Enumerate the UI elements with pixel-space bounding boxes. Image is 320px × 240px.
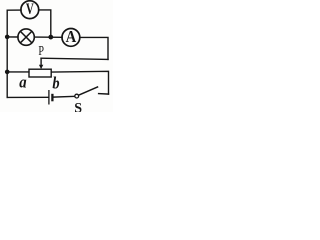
svg-text:P: P [38, 44, 44, 59]
wire ammeter right, down right side [80, 37, 108, 59]
wire bottom left to battery [7, 96, 48, 98]
svg-text:V: V [26, 1, 34, 18]
battery long plate [48, 90, 50, 105]
switch pivot circle [75, 94, 79, 98]
wire row3 left to box [7, 71, 29, 73]
node junction dot left row3 [5, 70, 10, 75]
wire switch stub to bottom right corner [99, 93, 109, 96]
node junction dot top branch [48, 35, 53, 40]
wire battery to switch [53, 95, 75, 98]
voltmeter circle [21, 1, 39, 19]
svg-text:b: b [52, 73, 59, 92]
wire lamp to ammeter [34, 36, 62, 38]
switch blade [79, 87, 99, 96]
wire top-left to voltmeter [7, 9, 21, 11]
wire voltmeter to corner, down to node [39, 10, 51, 37]
svg-text:S: S [74, 101, 82, 112]
wire slider vertical [40, 58, 42, 65]
node junction dot left row2 [5, 35, 10, 40]
svg-text:A: A [66, 27, 77, 46]
svg-text:a: a [19, 72, 26, 91]
wire box right to right edge, down [52, 71, 109, 94]
rheostat slider arrowhead [39, 65, 43, 69]
ammeter circle [62, 29, 80, 47]
lamp circle [18, 29, 34, 45]
wire row2 bus to lamp [7, 36, 18, 38]
wire left bus [6, 10, 8, 97]
lamp cross [20, 31, 31, 42]
resistor box (rheostat) [29, 69, 51, 77]
battery short thick plate [51, 94, 53, 102]
wire slider row [41, 58, 108, 59]
